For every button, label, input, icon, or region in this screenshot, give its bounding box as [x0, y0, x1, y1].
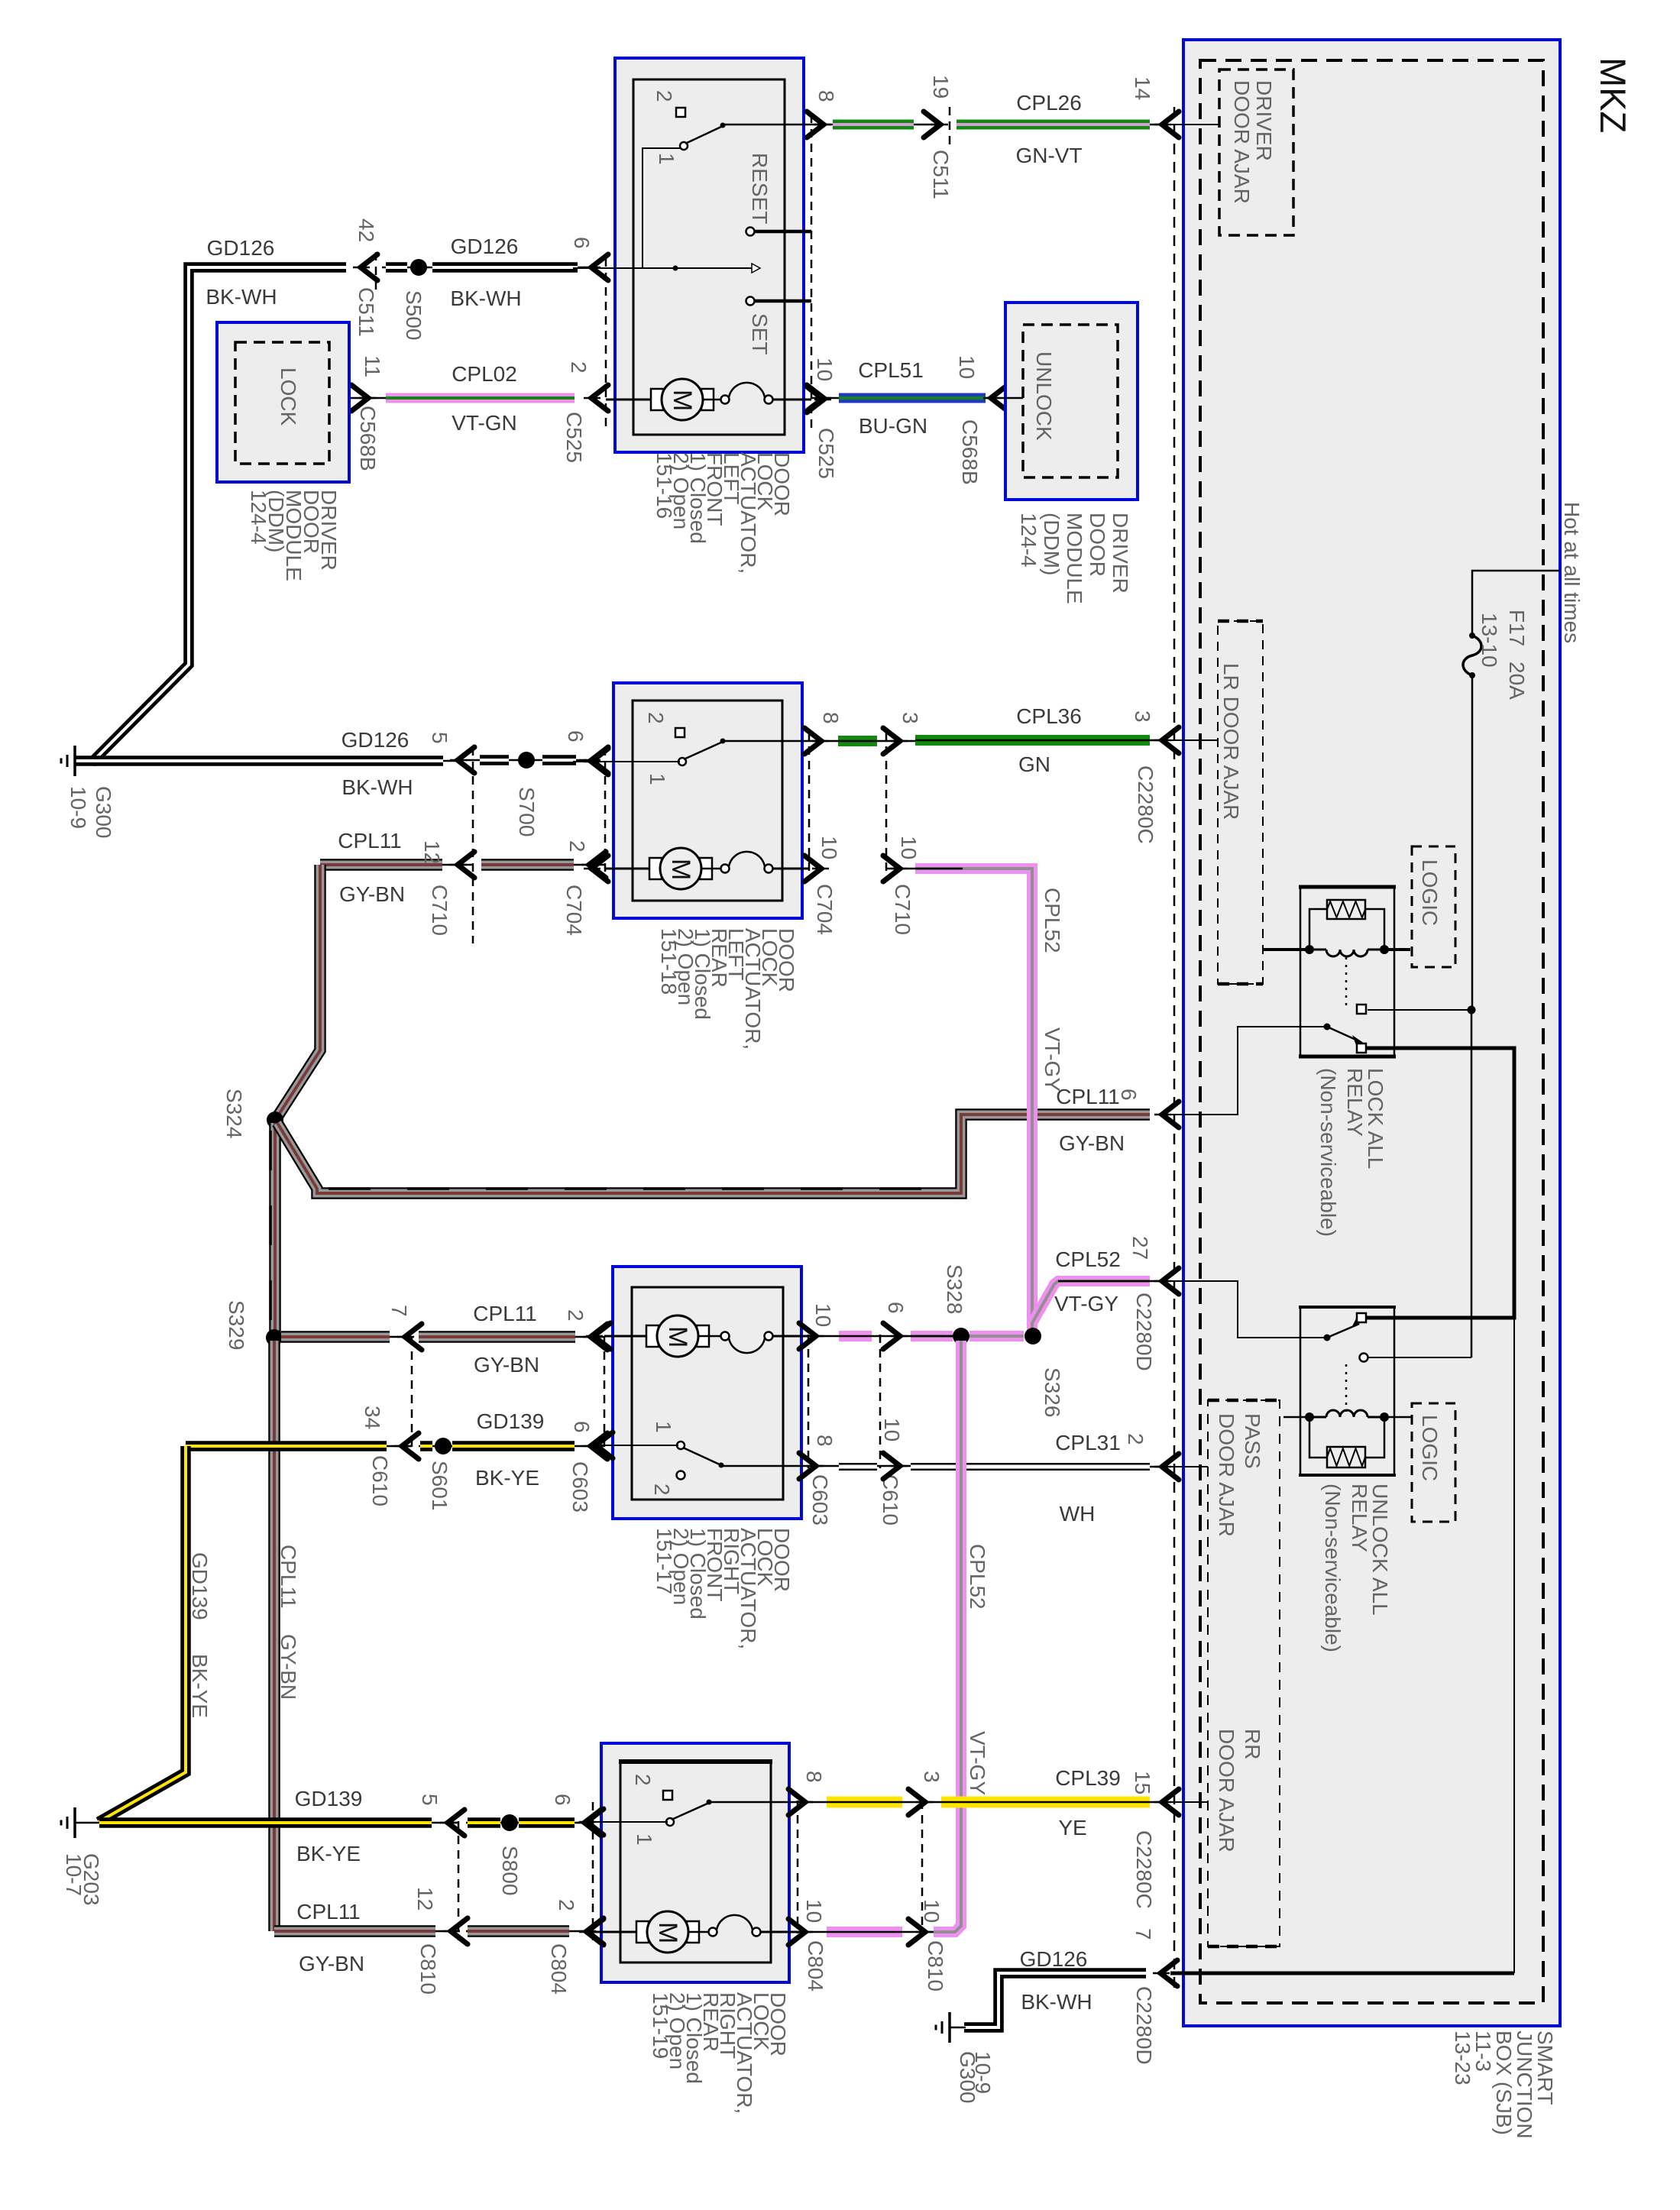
- svg-text:C610: C610: [368, 1455, 392, 1506]
- svg-text:CPL51: CPL51: [858, 358, 924, 382]
- svg-text:124-4: 124-4: [247, 490, 270, 545]
- svg-text:GD126: GD126: [1020, 1947, 1088, 1971]
- svg-text:MODULE: MODULE: [1063, 513, 1086, 604]
- svg-text:2: 2: [565, 840, 589, 853]
- LR door ajar box: [1218, 621, 1263, 984]
- svg-text:BU-GN: BU-GN: [859, 414, 927, 438]
- wire CPL52 VT-GY S328 down to RR: [934, 1341, 961, 1932]
- svg-text:RELAY: RELAY: [1343, 1068, 1367, 1137]
- svg-text:RR: RR: [1241, 1729, 1264, 1759]
- svg-text:10-9: 10-9: [971, 2051, 995, 2094]
- wire relay output to ground bus: [1513, 1318, 1515, 1973]
- door lock actuator right front box: [613, 1267, 801, 1519]
- svg-text:C511: C511: [929, 150, 953, 199]
- svg-text:34: 34: [361, 1406, 384, 1429]
- unlock relay resistor: [1309, 1417, 1327, 1458]
- svg-text:S329: S329: [225, 1300, 248, 1350]
- svg-text:10: 10: [811, 1303, 835, 1327]
- RF pin arrows: [594, 1323, 610, 1349]
- svg-text:CPL11: CPL11: [338, 829, 402, 853]
- svg-text:C568B: C568B: [958, 419, 982, 485]
- wire CPL51 BU-GN: [811, 397, 997, 400]
- svg-text:LOCK: LOCK: [277, 367, 300, 426]
- wire CPL52 stub RF motor row: [808, 1335, 911, 1338]
- wire CPL11 S324 to S329: [274, 1123, 277, 1335]
- svg-text:Hot at all times: Hot at all times: [1560, 502, 1584, 643]
- connector C511 (GD126 row): [361, 254, 377, 280]
- svg-text:GD139: GD139: [188, 1552, 212, 1620]
- pass/RR door ajar box: [1208, 1400, 1280, 1946]
- svg-text:2: 2: [555, 1899, 578, 1911]
- svg-text:DRIVER: DRIVER: [1252, 80, 1276, 161]
- svg-text:8: 8: [802, 1771, 826, 1783]
- svg-text:BK-WH: BK-WH: [342, 775, 413, 799]
- wire CPL36 GN: [809, 740, 942, 743]
- svg-text:PASS: PASS: [1241, 1413, 1264, 1469]
- wire CPL11 GY-BN RR row: [274, 1930, 458, 1933]
- connector C2280 dashed line: [1173, 107, 1176, 1994]
- svg-text:10: 10: [802, 1899, 826, 1923]
- svg-text:10: 10: [955, 355, 979, 379]
- svg-text:MKZ: MKZ: [1593, 57, 1633, 133]
- svg-text:8: 8: [813, 1435, 837, 1447]
- svg-text:GY-BN: GY-BN: [474, 1353, 539, 1377]
- wire CPL02 VT-GN (DDM LOCK to LF actuator): [349, 397, 386, 400]
- svg-text:C511: C511: [354, 287, 378, 337]
- lock relay coil: [1263, 948, 1309, 951]
- smart junction box SJB outline: [1183, 40, 1560, 2026]
- node S324: [267, 1111, 283, 1128]
- svg-text:M: M: [653, 1922, 682, 1943]
- svg-text:GD126: GD126: [451, 235, 519, 258]
- svg-text:6: 6: [570, 1421, 594, 1433]
- node S326: [1025, 1328, 1041, 1344]
- ground G300 top: [73, 746, 76, 776]
- RR connector dashed lines left (C810,C804): [458, 1821, 460, 1940]
- RR pin arrows: [587, 1809, 604, 1835]
- svg-text:GY-BN: GY-BN: [299, 1952, 364, 1975]
- svg-text:C525: C525: [814, 428, 838, 479]
- svg-text:DOOR AJAR: DOOR AJAR: [1230, 80, 1254, 204]
- svg-text:S326: S326: [1041, 1367, 1064, 1417]
- RR motor M: [593, 1931, 648, 1933]
- svg-text:3: 3: [898, 712, 922, 724]
- svg-text:C525: C525: [562, 412, 586, 463]
- wire CPL11 vertical to node S324: [277, 865, 320, 1117]
- pin 6 arrow into C525: [591, 254, 608, 280]
- lock relay common wire to CPL11 pin6: [1169, 1027, 1327, 1115]
- svg-text:2: 2: [564, 1309, 588, 1322]
- wire CPL26 GN-VT: [811, 124, 942, 126]
- RF switch: [677, 1442, 685, 1449]
- svg-text:C2280C: C2280C: [1132, 1830, 1156, 1909]
- svg-text:27: 27: [1128, 1236, 1152, 1260]
- svg-text:S601: S601: [428, 1461, 452, 1510]
- svg-text:CPL36: CPL36: [1016, 704, 1082, 728]
- svg-text:2: 2: [644, 712, 668, 724]
- ground G203: [73, 1807, 76, 1838]
- svg-text:C2280D: C2280D: [1132, 1986, 1156, 2065]
- lock relay NC contact: [1357, 1005, 1366, 1014]
- LR connector dashed lines left (C704,C710): [604, 747, 607, 878]
- svg-text:S500: S500: [402, 290, 426, 340]
- svg-text:VT-GY: VT-GY: [1041, 1027, 1064, 1092]
- svg-text:14: 14: [1131, 76, 1154, 100]
- logic box 1: [1412, 846, 1455, 967]
- svg-text:BK-WH: BK-WH: [450, 286, 521, 310]
- svg-text:C704: C704: [813, 884, 837, 935]
- svg-text:11: 11: [361, 355, 384, 377]
- svg-text:10-7: 10-7: [62, 1853, 86, 1896]
- svg-text:10: 10: [813, 358, 837, 381]
- svg-text:BK-WH: BK-WH: [1021, 1990, 1092, 2014]
- svg-text:RESET: RESET: [748, 153, 772, 224]
- svg-text:(Non-serviceable): (Non-serviceable): [1316, 1068, 1340, 1237]
- wire CPL39 into RR door ajar: [1169, 1801, 1208, 1803]
- svg-text:M: M: [668, 390, 697, 411]
- svg-text:YE: YE: [1058, 1816, 1086, 1840]
- wire GD126 BK-WH main run (C511-42 to G300 to C710-5): [75, 267, 346, 761]
- svg-text:BK-WH: BK-WH: [206, 285, 277, 309]
- RF connector dashed lines right: [808, 1335, 810, 1468]
- svg-text:GD126: GD126: [342, 728, 409, 752]
- svg-text:6: 6: [1117, 1089, 1141, 1101]
- unlock relay coil: [1283, 1416, 1309, 1419]
- svg-text:2: 2: [567, 361, 591, 374]
- svg-text:CPL52: CPL52: [966, 1544, 989, 1610]
- svg-text:DOOR AJAR: DOOR AJAR: [1215, 1729, 1238, 1852]
- svg-text:8: 8: [819, 712, 843, 724]
- svg-text:10: 10: [817, 836, 841, 859]
- svg-text:F17: F17: [1505, 610, 1529, 646]
- wire CPL52 branch to SJB pin 27: [1032, 1281, 1150, 1323]
- svg-text:1: 1: [633, 1833, 656, 1846]
- svg-text:13-10: 13-10: [1478, 613, 1501, 668]
- RF motor M: [604, 1335, 658, 1338]
- svg-text:CPL52: CPL52: [1041, 888, 1064, 953]
- svg-text:VT-GY: VT-GY: [1054, 1292, 1118, 1315]
- svg-text:M: M: [666, 859, 695, 880]
- svg-text:SET: SET: [748, 313, 772, 354]
- svg-text:S700: S700: [515, 787, 539, 836]
- wire CPL31 WH RF to SJB pin 2: [808, 1465, 942, 1467]
- svg-text:3: 3: [1131, 710, 1154, 723]
- svg-text:LOGIC: LOGIC: [1418, 859, 1442, 926]
- wire CPL52 VT-GY LR to S326: [886, 868, 924, 870]
- svg-text:DOOR AJAR: DOOR AJAR: [1215, 1413, 1238, 1537]
- svg-text:2: 2: [631, 1774, 655, 1786]
- LR motor M: [605, 868, 662, 870]
- LF connector C525 dashed lines: [605, 258, 607, 428]
- svg-text:CPL11: CPL11: [473, 1302, 537, 1325]
- svg-text:12: 12: [420, 840, 444, 864]
- svg-text:M: M: [663, 1326, 692, 1348]
- fuse F17 20A feed wire: [1472, 571, 1560, 636]
- lock all relay: [1300, 887, 1394, 1056]
- svg-text:CPL11: CPL11: [296, 1900, 361, 1924]
- svg-text:15: 15: [1131, 1771, 1154, 1794]
- wire CPL52 S328 between splices: [969, 1331, 1024, 1341]
- svg-text:10: 10: [920, 1899, 944, 1923]
- svg-text:C2280C: C2280C: [1134, 765, 1157, 844]
- svg-text:C804: C804: [804, 1940, 827, 1992]
- svg-text:42: 42: [354, 218, 378, 242]
- LF RESET contact: [746, 228, 755, 236]
- svg-text:WH: WH: [1060, 1502, 1096, 1526]
- svg-text:RELAY: RELAY: [1348, 1484, 1371, 1552]
- wire fuse to unlock relay NC: [1468, 1006, 1476, 1014]
- driver door ajar box: [1219, 70, 1293, 235]
- svg-text:BK-YE: BK-YE: [188, 1654, 212, 1718]
- svg-text:5: 5: [428, 732, 452, 744]
- svg-text:1: 1: [655, 153, 678, 165]
- svg-text:3: 3: [920, 1771, 944, 1783]
- svg-text:13-23: 13-23: [1451, 2030, 1474, 2085]
- svg-text:BK-YE: BK-YE: [475, 1466, 539, 1490]
- svg-text:(DDM): (DDM): [1040, 513, 1063, 575]
- svg-text:2: 2: [1124, 1433, 1148, 1445]
- driver door module UNLOCK box: [1005, 303, 1138, 500]
- node S328: [953, 1328, 969, 1344]
- unlock relay common wire to CPL52 pin27: [1169, 1281, 1327, 1338]
- LF switch common to reset/set wiper: [643, 148, 681, 268]
- unlock relay switch blade: [1324, 1335, 1331, 1341]
- svg-text:20A: 20A: [1505, 662, 1529, 700]
- svg-text:151-17: 151-17: [652, 1528, 676, 1594]
- wire CPL52 stub into C810: [798, 1931, 934, 1933]
- svg-text:8: 8: [814, 90, 838, 102]
- logic box 2: [1412, 1403, 1455, 1522]
- svg-text:7: 7: [1131, 1928, 1155, 1940]
- svg-text:151-19: 151-19: [649, 1992, 672, 2059]
- RF connector dashed lines left (C610,C603): [411, 1337, 413, 1451]
- svg-text:DOOR: DOOR: [1086, 513, 1109, 577]
- svg-text:19: 19: [929, 75, 953, 99]
- svg-text:GD126: GD126: [207, 236, 275, 260]
- svg-text:C603: C603: [568, 1461, 592, 1513]
- door lock actuator left rear box: [613, 683, 802, 918]
- svg-text:151-18: 151-18: [657, 928, 681, 995]
- RR connector dashed lines right: [797, 1801, 799, 1933]
- svg-text:12: 12: [413, 1887, 437, 1911]
- svg-text:C810: C810: [924, 1940, 947, 1992]
- lock relay switch blade: [1324, 1024, 1331, 1031]
- svg-text:6: 6: [551, 1794, 575, 1806]
- svg-text:124-4: 124-4: [1017, 513, 1041, 568]
- svg-text:GY-BN: GY-BN: [277, 1634, 300, 1700]
- LR connector dashed lines right: [808, 732, 811, 878]
- svg-text:CPL11: CPL11: [1056, 1085, 1120, 1108]
- svg-text:6: 6: [570, 237, 594, 249]
- svg-text:G300: G300: [92, 786, 115, 839]
- LF SET contact: [746, 297, 755, 306]
- svg-text:C568B: C568B: [356, 406, 380, 471]
- svg-text:10: 10: [897, 836, 921, 859]
- svg-text:1: 1: [646, 773, 669, 785]
- svg-text:CPL02: CPL02: [452, 362, 517, 386]
- svg-text:C704: C704: [562, 885, 586, 936]
- wire GD139 BK-YE RR row (G203 to S800 to RR switch): [99, 1822, 458, 1824]
- LF motor arc: [702, 399, 720, 401]
- svg-text:S324: S324: [222, 1089, 246, 1138]
- wire GD126 BK-WH second row labels (C710-5, S700, C704-6): [458, 747, 474, 773]
- svg-text:CPL26: CPL26: [1016, 91, 1082, 115]
- wire CPL11 GY-BN LR row: [320, 864, 473, 866]
- svg-text:CPL31: CPL31: [1055, 1431, 1121, 1454]
- wire CPL31 into pass door ajar: [1169, 1466, 1208, 1467]
- svg-text:CPL11: CPL11: [277, 1545, 300, 1609]
- svg-text:151-16: 151-16: [652, 452, 676, 519]
- wire CPL11 GY-BN S329 to RF motor: [266, 1329, 283, 1346]
- svg-text:S328: S328: [943, 1264, 966, 1314]
- LF motor M: [606, 399, 662, 401]
- svg-text:GY-BN: GY-BN: [1059, 1131, 1125, 1155]
- svg-text:10-9: 10-9: [66, 786, 90, 829]
- lock relay actuation dotted line: [1345, 957, 1348, 1005]
- svg-text:GY-BN: GY-BN: [339, 882, 405, 906]
- LR pin arrows: [591, 749, 608, 775]
- lock relay resistor: [1309, 909, 1327, 950]
- svg-text:LOGIC: LOGIC: [1418, 1415, 1442, 1481]
- svg-text:GD139: GD139: [477, 1409, 545, 1433]
- svg-text:C603: C603: [808, 1474, 832, 1526]
- svg-text:C710: C710: [428, 885, 452, 936]
- svg-text:C804: C804: [547, 1943, 571, 1995]
- svg-text:C810: C810: [416, 1943, 440, 1995]
- svg-text:7: 7: [387, 1305, 411, 1317]
- driver door module LOCK box: [217, 322, 349, 482]
- unlock relay actuation dotted line: [1345, 1364, 1348, 1412]
- svg-text:C710: C710: [891, 884, 914, 935]
- ground G300 bottom: [948, 2012, 951, 2043]
- svg-text:(Non-serviceable): (Non-serviceable): [1321, 1484, 1345, 1652]
- wire CPL36 into LR door ajar: [1169, 739, 1218, 741]
- LF pin arrows right side: [807, 112, 824, 138]
- lock relay output thick wire: [1367, 1048, 1514, 1318]
- door lock actuator right rear box: [601, 1743, 789, 1982]
- wire CPL11 S329 down to RR row: [274, 1341, 276, 1931]
- wire GD139 vertical to G203: [99, 1446, 186, 1822]
- node S500: [382, 267, 585, 269]
- svg-text:C610: C610: [879, 1474, 902, 1526]
- svg-text:CPL52: CPL52: [1055, 1247, 1121, 1271]
- svg-text:VT-GN: VT-GN: [452, 411, 517, 435]
- svg-text:5: 5: [418, 1794, 442, 1806]
- svg-text:C2280D: C2280D: [1132, 1293, 1156, 1371]
- svg-text:BK-YE: BK-YE: [296, 1842, 361, 1865]
- ground bus GD126 inside SJB: [1170, 1972, 1514, 1975]
- unlock relay NC contact: [1360, 1354, 1368, 1362]
- svg-text:10: 10: [880, 1418, 904, 1442]
- svg-text:VT-GY: VT-GY: [966, 1731, 989, 1795]
- svg-text:6: 6: [564, 730, 588, 743]
- svg-text:LR DOOR AJAR: LR DOOR AJAR: [1219, 663, 1243, 820]
- svg-text:2: 2: [650, 1484, 674, 1496]
- svg-text:GD139: GD139: [295, 1787, 363, 1810]
- wire GD139 BK-YE RF row: [186, 1445, 412, 1448]
- fuse F17 20A: [1463, 636, 1481, 675]
- wire GD126 BK-WH bottom right to G300: [999, 1973, 1146, 2023]
- unlock all relay: [1300, 1307, 1394, 1475]
- svg-text:DRIVER: DRIVER: [1109, 513, 1132, 594]
- svg-text:S800: S800: [498, 1846, 522, 1895]
- svg-text:GN-VT: GN-VT: [1015, 144, 1082, 167]
- wire CPL26 into driver door ajar: [1169, 124, 1219, 125]
- svg-text:CPL39: CPL39: [1055, 1766, 1121, 1790]
- svg-text:2: 2: [652, 90, 676, 102]
- svg-text:1: 1: [652, 1421, 675, 1433]
- svg-text:GN: GN: [1018, 752, 1050, 776]
- svg-text:UNLOCK: UNLOCK: [1032, 351, 1056, 441]
- svg-text:6: 6: [884, 1302, 908, 1314]
- wire CPL11 long run S324 to SJB pin 6: [277, 1115, 1150, 1193]
- door lock actuator left front box: [615, 58, 804, 452]
- wire CPL39 YE to SJB pin 15: [798, 1801, 942, 1804]
